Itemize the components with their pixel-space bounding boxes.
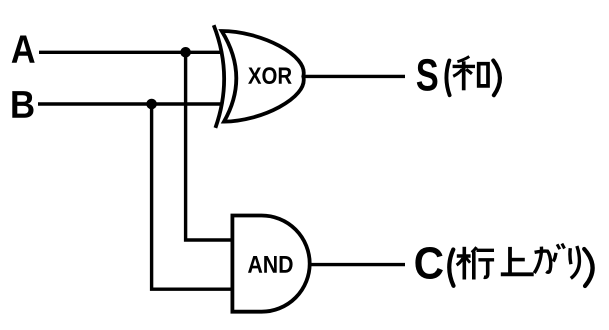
junction dot on wire B — [146, 99, 157, 110]
input label A — [12, 36, 35, 63]
kanji WA (sum) stroke group — [453, 57, 488, 91]
XOR gate U1 input arc — [214, 25, 224, 128]
wire B branch to AND bottom input — [152, 104, 231, 289]
input label B — [12, 91, 33, 118]
wire XOR output to S — [302, 75, 405, 78]
AND gate U2 body — [232, 216, 309, 312]
XOR gate label — [248, 67, 292, 84]
open paren on S line — [446, 61, 449, 96]
wire A (input A to XOR) — [39, 51, 223, 54]
wire A branch to AND top input — [186, 52, 231, 240]
wire B (input B to XOR) — [38, 102, 223, 105]
kanji KETA (digit) stroke group — [457, 247, 495, 280]
AND gate label — [248, 256, 293, 273]
open paren on C line — [449, 250, 453, 286]
output label S — [417, 59, 438, 91]
XOR gate U1 body — [222, 31, 304, 122]
kanji UE (up) stroke group — [501, 247, 534, 274]
close paren on C line — [584, 249, 592, 286]
wire AND output to C — [308, 263, 405, 266]
close paren on S line — [493, 61, 500, 96]
hiragana RI stroke group — [570, 246, 580, 278]
junction dot on wire A — [180, 47, 191, 58]
hiragana GA stroke group — [534, 244, 564, 273]
output label C — [415, 247, 443, 279]
